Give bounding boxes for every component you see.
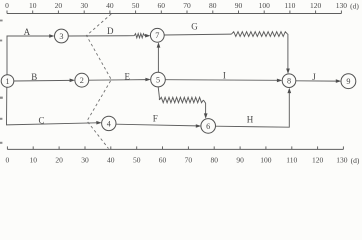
svg-text:10: 10 <box>29 1 37 10</box>
svg-text:A: A <box>24 27 31 37</box>
svg-text:6: 6 <box>206 122 210 131</box>
top time scale line <box>7 13 341 15</box>
svg-text:20: 20 <box>55 156 63 165</box>
svg-text:70: 70 <box>183 1 191 10</box>
svg-text:B: B <box>31 72 37 82</box>
node 4 <box>102 116 116 130</box>
svg-text:100: 100 <box>259 1 271 10</box>
top scale ticks <box>7 11 341 14</box>
scan edge speck <box>0 118 2 120</box>
svg-text:G: G <box>191 22 198 32</box>
activity D arrow with free float squiggle (3 to 7) <box>68 34 150 38</box>
svg-text:90: 90 <box>236 156 244 165</box>
activity I arrow (5 to 8) <box>165 79 282 83</box>
svg-text:4: 4 <box>107 119 111 128</box>
label H <box>247 114 254 124</box>
node 1 <box>1 75 14 88</box>
svg-text:20: 20 <box>55 1 63 10</box>
svg-text:40: 40 <box>106 1 114 10</box>
activity G arrow with free float squiggle (7 to 8) <box>164 32 290 74</box>
dashed day-40 reference line <box>87 14 112 149</box>
svg-text:(d): (d) <box>350 2 359 11</box>
label B <box>31 72 37 82</box>
label I <box>223 71 226 81</box>
activity C arrow (1 to 4) <box>7 87 102 125</box>
bottom scale ticks <box>7 146 343 149</box>
node 3 <box>55 29 69 43</box>
scan edge speck <box>0 142 2 144</box>
label E <box>124 71 130 81</box>
svg-text:120: 120 <box>310 1 322 10</box>
svg-text:80: 80 <box>209 1 217 10</box>
scan edge speck <box>0 40 2 42</box>
svg-text:110: 110 <box>284 1 295 10</box>
svg-text:H: H <box>247 114 254 124</box>
svg-text:50: 50 <box>132 1 140 10</box>
svg-text:60: 60 <box>159 156 167 165</box>
svg-text:E: E <box>124 71 130 81</box>
label D <box>107 26 114 36</box>
node 7 <box>150 28 164 42</box>
svg-text:100: 100 <box>260 156 272 165</box>
dummy arrow (5 up to 7) <box>157 42 161 72</box>
label C <box>38 116 44 126</box>
svg-text:80: 80 <box>210 156 218 165</box>
activity E arrow (2 to 5) <box>89 78 151 82</box>
node 9 <box>341 74 356 89</box>
svg-text:110: 110 <box>286 156 297 165</box>
svg-text:9: 9 <box>346 77 350 86</box>
svg-text:I: I <box>223 71 226 81</box>
svg-text:60: 60 <box>158 1 166 10</box>
svg-text:1: 1 <box>5 77 9 86</box>
node 2 <box>75 73 89 87</box>
svg-text:130: 130 <box>336 156 348 165</box>
node 5 <box>151 72 166 87</box>
svg-text:30: 30 <box>80 1 88 10</box>
label A <box>24 27 31 37</box>
svg-text:0: 0 <box>5 1 9 10</box>
svg-text:130: 130 <box>336 1 348 10</box>
svg-text:C: C <box>38 116 44 126</box>
svg-text:30: 30 <box>81 156 89 165</box>
node 6 <box>201 119 216 134</box>
free float squiggle (5 down to 6) <box>158 87 207 119</box>
svg-text:2: 2 <box>80 76 84 85</box>
svg-text:50: 50 <box>133 156 141 165</box>
activity B arrow (1 to 2) <box>14 79 75 83</box>
label F <box>153 113 158 123</box>
label G <box>191 22 198 32</box>
svg-text:5: 5 <box>156 76 160 85</box>
bottom time scale line <box>7 148 343 150</box>
svg-text:J: J <box>312 72 316 82</box>
svg-text:120: 120 <box>312 156 324 165</box>
activity H arrow (6 to 8) <box>215 88 291 128</box>
svg-text:7: 7 <box>155 31 159 40</box>
label J <box>312 72 316 82</box>
activity J arrow (8 to 9) <box>296 79 341 83</box>
svg-text:(d): (d) <box>351 156 360 165</box>
svg-text:70: 70 <box>185 156 193 165</box>
activity A arrow (1 to 3) <box>7 34 55 75</box>
svg-text:40: 40 <box>107 156 115 165</box>
scan edge speck <box>0 20 3 22</box>
svg-text:8: 8 <box>287 77 291 86</box>
node 8 <box>282 74 296 88</box>
svg-text:10: 10 <box>29 156 37 165</box>
scan edge speck <box>0 97 3 99</box>
svg-text:3: 3 <box>59 32 63 41</box>
svg-text:0: 0 <box>6 156 10 165</box>
bottom scale labels <box>6 156 360 165</box>
svg-text:90: 90 <box>235 1 243 10</box>
top scale labels <box>5 1 359 10</box>
svg-text:D: D <box>107 26 114 36</box>
activity F arrow (4 to 6) <box>116 124 201 128</box>
svg-text:F: F <box>153 113 158 123</box>
